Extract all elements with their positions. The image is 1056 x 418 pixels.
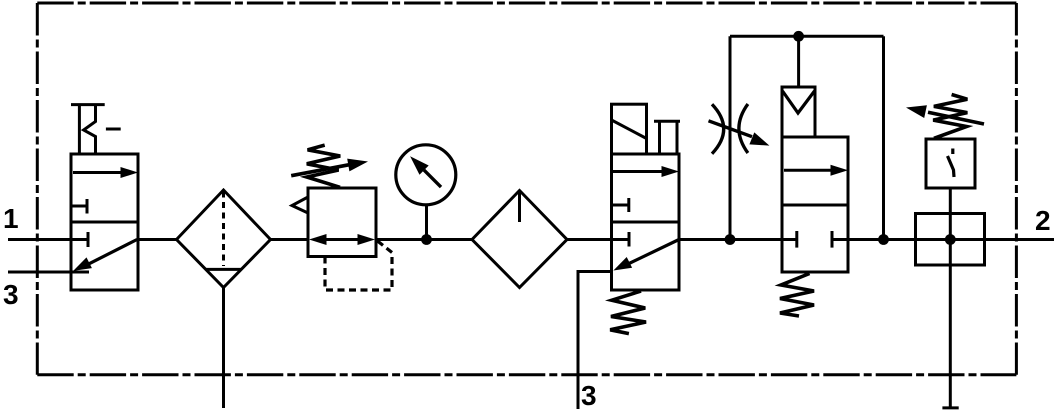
gauge G1 needle [410,156,441,187]
regulator R1 double flow arrow [309,234,375,245]
valve V1 mid line [71,221,138,224]
svg-text:2: 2 [1035,205,1051,236]
valve V2 exhaust diagonal arrow [613,240,679,271]
valve V1 top cell flow arrow [73,167,138,178]
wire F2 to valve V2 [567,238,612,241]
wire S1 stem [949,188,952,214]
valve V1 top cell blocked port T [71,199,87,214]
valve V2 top cell flow arrow [613,166,679,177]
wire port 1 line [8,238,71,241]
gauge G1 dial [396,145,456,205]
regulator R1 adjustment spring [307,145,340,187]
regulator R1 relief triangle [292,197,308,213]
filter F1 water separator diamond [177,190,271,288]
svg-text:1: 1 [3,203,19,234]
valve V3 return spring [780,274,814,317]
node manifold junction dot [945,234,956,245]
wire manifold drain [949,214,952,408]
filter F2 diamond [472,191,567,288]
pressure switch S1 adjustment spring [933,95,967,139]
valve V2 bottom cell blocked port T [612,232,630,247]
wire F1 to regulator [271,238,309,241]
gauge G1 junction dot [421,234,432,245]
wire pilot top line [730,35,884,38]
node pilot right junction [878,234,889,245]
filter F2 element line [518,192,521,222]
valve V2 top cell blocked port T [612,198,629,212]
valve V2 solenoid coil [612,104,647,154]
wire pilot right drop [882,36,885,239]
wire throttle branch riser [729,36,732,239]
wire pilot stem to V3 [797,36,800,87]
valve V1 manual 3/2 body [71,154,138,290]
filter F1 dashed centre line [222,192,225,267]
pressure switch S1 contact symbol [948,149,955,178]
regulator R1 body [308,188,376,257]
valve V3 body [782,137,848,272]
regulator R1 pilot dashed line [325,241,392,290]
throttle D1 adjustment arrow [709,121,770,146]
wire V3 to block [848,238,1054,241]
valve V2 return spring [610,291,646,334]
node throttle branch junction [725,234,736,245]
throttle D1 arcs [712,104,748,154]
valve V1 bottom cell blocked port T [71,232,88,247]
filter F1 drain line [222,288,225,409]
filter F1 separator chord [206,268,241,271]
svg-text:3: 3 [581,380,597,411]
valve V3 top cell flow arrow [784,165,848,176]
valve V3 bottom cell left blocked T [782,231,797,248]
wire V2 port 3 line [578,272,612,410]
valve V3 pilot box [782,87,815,137]
wire V2 to V3 [679,238,782,241]
valve V3 bottom cell right blocked T [832,231,848,248]
wire port 3 line [8,271,89,274]
gauge G1 stem [425,206,428,240]
wire V1 to F1 [138,238,177,241]
manifold block [916,214,985,266]
pressure switch S1 adjustment arrow [906,105,984,124]
regulator R1 adjustment arrow [291,159,368,176]
pressure switch S1 box [926,139,975,188]
wire manifold drain end cap [942,406,958,409]
valve V3 mid line [782,204,848,207]
valve V1 manual lever actuator [71,105,121,154]
node pilot top junction [793,31,804,42]
valve V2 mid line [612,221,680,224]
valve V2 solenoid 3/2 body [612,154,680,290]
valve V3 pilot V symbol [783,91,815,113]
valve V1 exhaust diagonal arrow [73,240,137,271]
svg-text:3: 3 [3,279,19,310]
valve V2 manual override [654,121,680,154]
wire regulator to F2 [376,238,472,241]
